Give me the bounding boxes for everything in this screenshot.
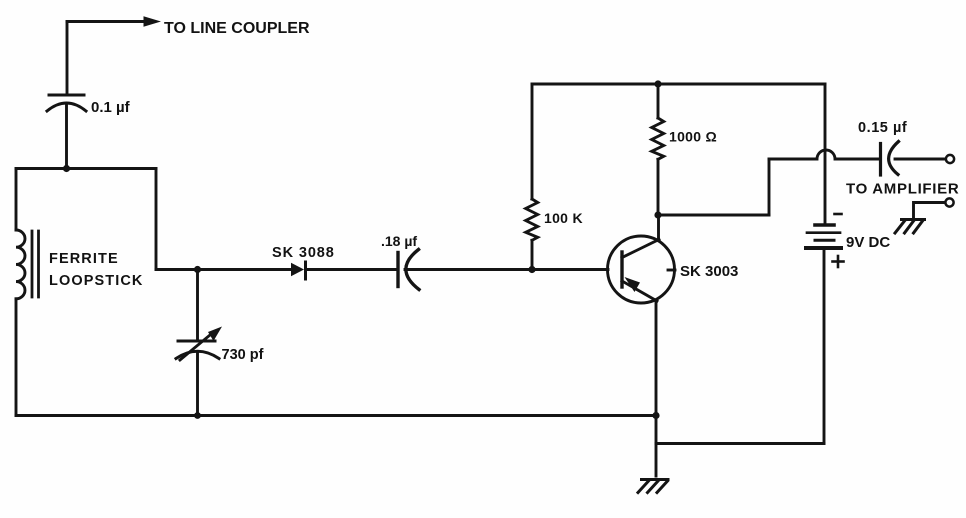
inductor L1 ferrite loopstick	[16, 230, 39, 299]
node bottom 730pf junction	[194, 412, 201, 419]
label 0.15 uf	[858, 120, 907, 136]
svg-text:9V DC: 9V DC	[846, 234, 890, 251]
capacitor C4 0.15uf	[881, 142, 899, 176]
wire diode to C2	[306, 268, 397, 271]
svg-text:LOOPSTICK: LOOPSTICK	[49, 273, 144, 289]
svg-text:TO AMPLIFIER: TO AMPLIFIER	[846, 181, 959, 198]
ground amplifier return	[895, 220, 925, 234]
label 0.1 uf	[91, 99, 131, 116]
svg-text:730 pf: 730 pf	[222, 347, 264, 363]
svg-text:1000 Ω: 1000 Ω	[669, 129, 717, 145]
wire tank left upper	[15, 169, 18, 231]
resistor R1 100K	[526, 84, 538, 270]
wire top-left riser	[66, 22, 69, 96]
wire output line with hop	[769, 150, 879, 159]
wire tank left lower	[15, 299, 18, 416]
capacitor C2 .18uf	[398, 250, 419, 290]
wire C2 to base	[405, 268, 608, 271]
label SK 3003	[680, 263, 738, 280]
diode D1 SK3088	[291, 262, 306, 279]
wire emitter to battery return	[656, 442, 824, 445]
resistor R2 1000 ohm	[652, 84, 664, 215]
wire C1 to tank top	[65, 104, 68, 169]
svg-text:100 K: 100 K	[544, 210, 583, 226]
wire emitter down	[655, 301, 658, 476]
label TO AMPLIFIER	[846, 181, 959, 198]
node emitter bottom junction	[652, 412, 659, 419]
wire top rail	[532, 83, 825, 86]
wire tank top rail	[16, 167, 156, 170]
node 730pf junction	[194, 266, 201, 273]
wire collector to coupling	[658, 214, 769, 217]
terminal output upper	[946, 155, 954, 163]
capacitor C1 0.1uf	[47, 95, 86, 111]
svg-text:SK 3088: SK 3088	[272, 245, 335, 261]
wire base line left	[156, 268, 291, 271]
label 1000 ohm	[669, 129, 717, 145]
label FERRITE LOOPSTICK	[49, 251, 144, 289]
svg-text:.18 µf: .18 µf	[381, 233, 417, 249]
transistor Q1 SK3003	[608, 215, 676, 303]
wire C4 to terminal	[895, 158, 944, 161]
node 100K junction	[528, 266, 535, 273]
wire lower terminal to ground	[914, 203, 945, 220]
wire battery return riser	[823, 248, 826, 444]
wire riser to output line	[768, 159, 771, 215]
label SK 3088	[272, 245, 335, 261]
variable capacitor C3 730pf	[176, 270, 222, 416]
battery B1 9V DC	[806, 214, 844, 267]
node collector junction	[654, 211, 661, 218]
label .18 uf	[381, 233, 417, 249]
wire bottom rail	[16, 414, 656, 417]
wire tank right vertical	[155, 169, 158, 270]
svg-text:TO LINE COUPLER: TO LINE COUPLER	[164, 20, 310, 37]
label TO LINE COUPLER	[164, 20, 310, 37]
svg-text:FERRITE: FERRITE	[49, 251, 119, 267]
node tank top junction	[63, 165, 70, 172]
label 100 K	[544, 210, 583, 226]
svg-text:0.15 µf: 0.15 µf	[858, 120, 907, 136]
svg-text:SK 3003: SK 3003	[680, 263, 738, 280]
svg-text:0.1 µf: 0.1 µf	[91, 99, 131, 116]
label 730 pf	[222, 347, 264, 363]
wire battery top	[824, 84, 827, 225]
node collector rail junction	[654, 80, 661, 87]
label 9V DC	[846, 234, 890, 251]
wire to line coupler	[67, 20, 145, 23]
ground main	[638, 480, 668, 493]
terminal output lower	[945, 198, 953, 206]
arrowhead to line coupler	[144, 16, 162, 26]
